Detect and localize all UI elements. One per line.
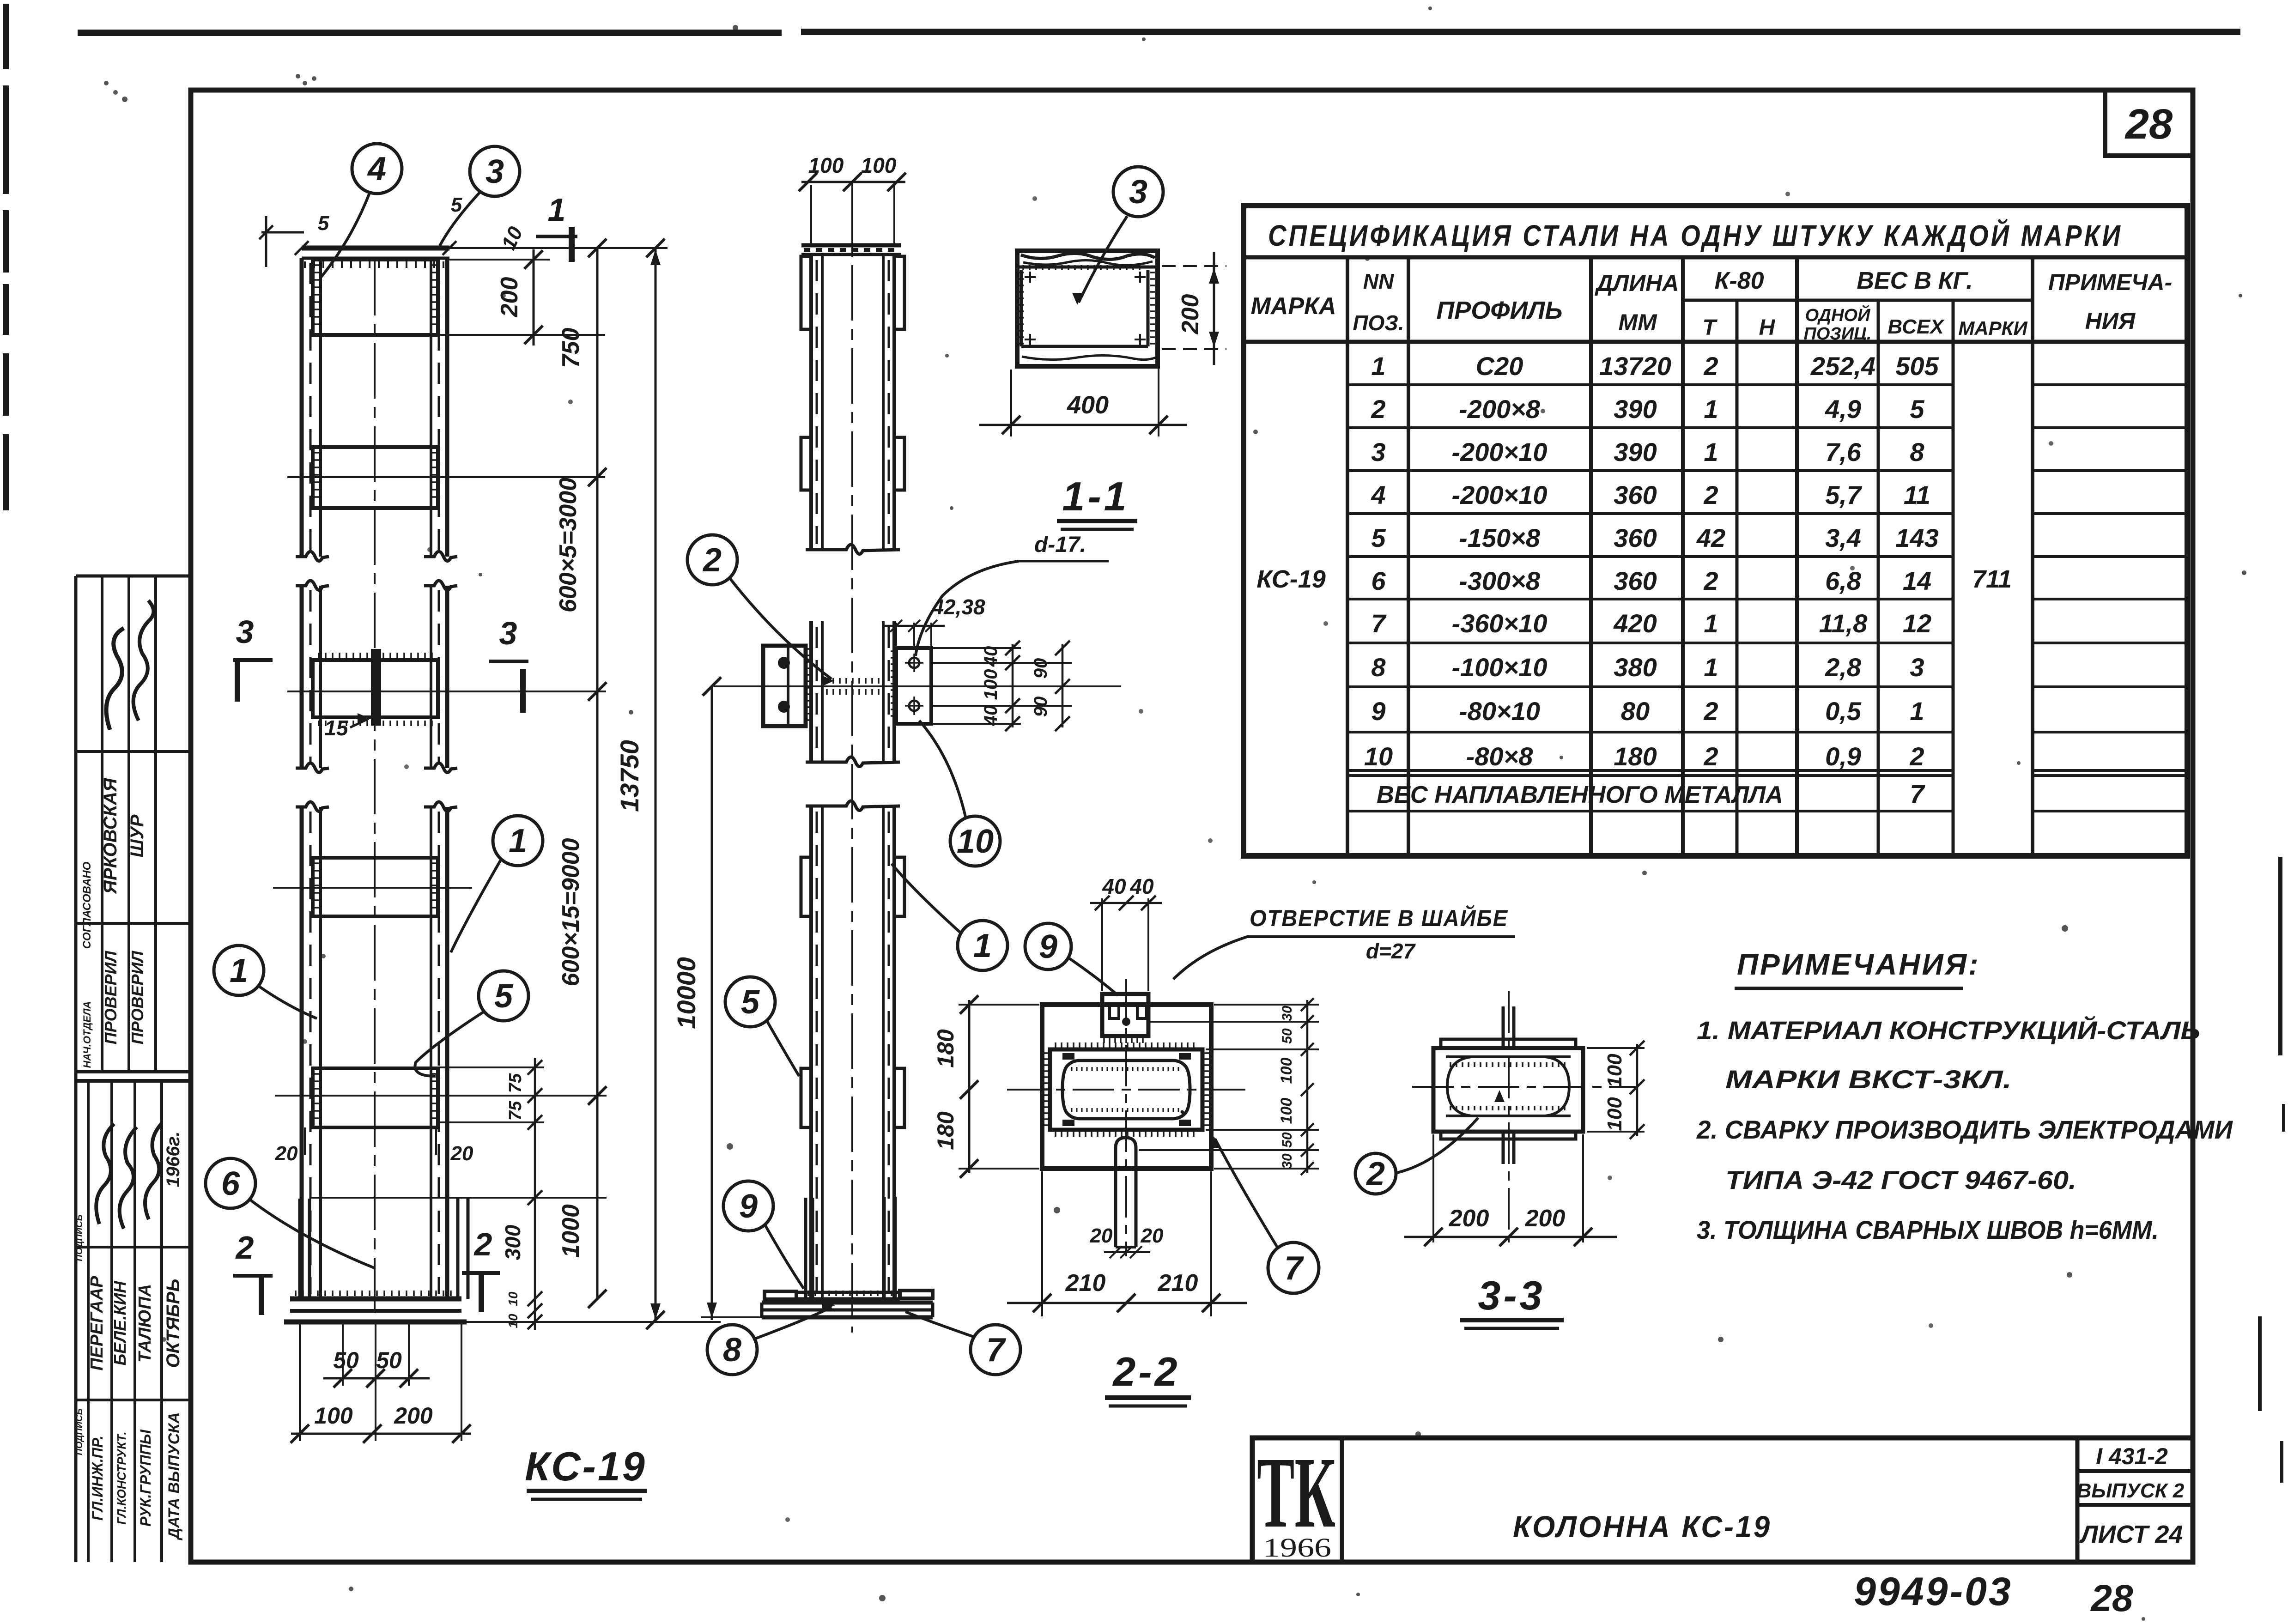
svg-text:С20: С20 (1476, 351, 1523, 381)
svg-text:2: 2 (702, 542, 722, 579)
svg-text:ПРОВЕРИЛ: ПРОВЕРИЛ (128, 950, 147, 1044)
svg-text:7: 7 (1284, 1250, 1304, 1287)
svg-text:d-17.: d-17. (1034, 533, 1086, 557)
svg-text:8: 8 (1371, 653, 1386, 682)
svg-text:5: 5 (1371, 523, 1386, 552)
svg-text:2: 2 (1703, 566, 1718, 595)
svg-text:75: 75 (506, 1073, 525, 1093)
svg-text:2: 2 (235, 1230, 254, 1266)
svg-text:30: 30 (1280, 1006, 1295, 1021)
svg-text:90: 90 (1031, 658, 1051, 679)
svg-text:180: 180 (933, 1029, 959, 1068)
svg-text:СОГЛАСОВАНО: СОГЛАСОВАНО (81, 861, 93, 949)
svg-text:20: 20 (1141, 1224, 1164, 1247)
svg-text:КС-19: КС-19 (525, 1443, 647, 1489)
svg-text:100: 100 (1278, 1098, 1295, 1124)
svg-text:ПОДПИСЬ: ПОДПИСЬ (74, 1408, 85, 1455)
svg-text:РУК.ГРУППЫ: РУК.ГРУППЫ (137, 1429, 154, 1527)
svg-text:6,8: 6,8 (1825, 566, 1862, 595)
svg-text:505: 505 (1895, 351, 1939, 381)
svg-text:50: 50 (376, 1347, 402, 1373)
svg-text:ЛИСТ 24: ЛИСТ 24 (2079, 1521, 2183, 1548)
svg-text:5: 5 (741, 984, 760, 1021)
svg-text:2,8: 2,8 (1825, 653, 1862, 682)
svg-text:ММ: ММ (1618, 309, 1657, 335)
svg-text:42: 42 (1696, 523, 1725, 552)
svg-text:143: 143 (1895, 523, 1938, 552)
svg-text:15: 15 (324, 716, 349, 740)
svg-text:40: 40 (981, 646, 1001, 667)
svg-text:10: 10 (1364, 742, 1393, 771)
svg-text:5,7: 5,7 (1825, 480, 1863, 509)
svg-text:300: 300 (501, 1224, 525, 1260)
svg-text:-200×10: -200×10 (1451, 480, 1547, 509)
svg-text:-80×10: -80×10 (1459, 697, 1540, 726)
svg-text:1-1: 1-1 (1062, 473, 1129, 519)
svg-text:ГЛ.КОНСТРУКТ.: ГЛ.КОНСТРУКТ. (115, 1431, 128, 1524)
svg-text:-200×10: -200×10 (1451, 437, 1547, 467)
svg-text:1: 1 (1704, 609, 1718, 638)
svg-text:d=27: d=27 (1366, 939, 1416, 963)
svg-text:100: 100 (1603, 1097, 1626, 1131)
svg-text:11,8: 11,8 (1819, 609, 1868, 638)
svg-text:11: 11 (1904, 480, 1930, 509)
svg-text:2: 2 (1703, 351, 1718, 381)
svg-text:20: 20 (275, 1142, 298, 1165)
svg-text:30: 30 (1280, 1153, 1295, 1169)
svg-text:252,4: 252,4 (1810, 351, 1875, 381)
svg-text:10000: 10000 (672, 957, 701, 1029)
svg-text:ТК: ТК (1257, 1436, 1335, 1549)
svg-text:200: 200 (496, 277, 523, 318)
svg-text:2: 2 (1365, 1156, 1385, 1193)
svg-text:ГЛ.ИНЖ.ПР.: ГЛ.ИНЖ.ПР. (89, 1436, 106, 1521)
svg-text:10: 10 (506, 1291, 520, 1306)
svg-text:КС-19: КС-19 (1256, 565, 1326, 593)
svg-text:750: 750 (558, 328, 584, 368)
svg-text:5: 5 (318, 212, 329, 235)
svg-text:360: 360 (1614, 566, 1657, 595)
svg-text:-80×8: -80×8 (1466, 742, 1534, 771)
svg-text:ПРИМЕЧАНИЯ:: ПРИМЕЧАНИЯ: (1737, 948, 1980, 981)
svg-text:40: 40 (981, 705, 1001, 727)
svg-text:НАЧ.ОТДЕЛА: НАЧ.ОТДЕЛА (81, 1001, 93, 1068)
svg-text:5: 5 (494, 978, 513, 1015)
svg-text:400: 400 (1067, 391, 1109, 419)
svg-text:0,9: 0,9 (1825, 742, 1861, 771)
svg-text:0,5: 0,5 (1825, 697, 1862, 726)
svg-text:80: 80 (1621, 697, 1650, 726)
svg-text:ПЕРЕГААР: ПЕРЕГААР (87, 1276, 107, 1371)
svg-text:40: 40 (1102, 874, 1126, 898)
svg-text:4: 4 (367, 151, 386, 188)
svg-text:СПЕЦИФИКАЦИЯ СТАЛИ НА ОДНУ: СПЕЦИФИКАЦИЯ СТАЛИ НА ОДНУ ШТУКУ КАЖДОЙ … (1268, 218, 2123, 252)
svg-text:ДЛИНА: ДЛИНА (1595, 270, 1679, 296)
svg-text:1: 1 (1910, 697, 1924, 726)
svg-text:ПРОФИЛЬ: ПРОФИЛЬ (1436, 297, 1562, 324)
svg-text:20: 20 (450, 1142, 473, 1165)
svg-text:200: 200 (1449, 1205, 1489, 1232)
svg-text:20: 20 (1090, 1224, 1113, 1247)
svg-text:50: 50 (333, 1347, 359, 1373)
svg-text:7: 7 (986, 1332, 1006, 1369)
svg-text:МАРКИ: МАРКИ (1958, 317, 2027, 339)
svg-text:6: 6 (221, 1165, 240, 1202)
svg-text:1966г.: 1966г. (163, 1132, 183, 1188)
svg-text:380: 380 (1614, 653, 1657, 682)
svg-text:2: 2 (1703, 742, 1718, 771)
svg-text:ОДНОЙ: ОДНОЙ (1805, 304, 1870, 325)
svg-text:210: 210 (1158, 1270, 1198, 1297)
svg-text:ПОЗИЦ.: ПОЗИЦ. (1804, 324, 1872, 344)
svg-text:40: 40 (1129, 874, 1154, 898)
svg-text:711: 711 (1972, 565, 2012, 593)
svg-text:100: 100 (981, 669, 1001, 700)
svg-text:ПОДПИСЬ: ПОДПИСЬ (74, 1214, 85, 1261)
svg-text:600×15=9000: 600×15=9000 (558, 838, 584, 986)
svg-text:2: 2 (1703, 697, 1718, 726)
svg-text:-300×8: -300×8 (1459, 566, 1541, 595)
svg-text:100: 100 (1603, 1054, 1626, 1088)
svg-text:ОКТЯБРЬ: ОКТЯБРЬ (163, 1279, 183, 1368)
svg-text:1: 1 (230, 952, 248, 989)
svg-text:2-2: 2-2 (1112, 1349, 1180, 1394)
svg-text:3: 3 (1371, 437, 1385, 467)
svg-text:180: 180 (1614, 742, 1657, 771)
svg-text:1000: 1000 (558, 1204, 584, 1258)
svg-text:6: 6 (1371, 566, 1386, 595)
svg-text:3. ТОЛЩИНА СВАРНЫХ ШВОВ h=6ММ.: 3. ТОЛЩИНА СВАРНЫХ ШВОВ h=6ММ. (1697, 1215, 2159, 1244)
svg-text:13720: 13720 (1599, 351, 1671, 381)
svg-text:390: 390 (1614, 437, 1657, 467)
svg-text:МАРКИ ВКСТ-3КЛ.: МАРКИ ВКСТ-3КЛ. (1725, 1065, 2012, 1094)
svg-text:Т: Т (1702, 315, 1717, 340)
svg-text:360: 360 (1614, 523, 1657, 552)
svg-text:ВЕС НАПЛАВЛЕННОГО МЕТАЛЛА: ВЕС НАПЛАВЛЕННОГО МЕТАЛЛА (1377, 782, 1783, 808)
svg-text:1. МАТЕРИАЛ КОНСТРУКЦИЙ-СТАЛЬ: 1. МАТЕРИАЛ КОНСТРУКЦИЙ-СТАЛЬ (1697, 1016, 2200, 1045)
svg-text:100: 100 (861, 153, 897, 177)
svg-text:3: 3 (236, 614, 254, 650)
svg-text:ТИПА Э-42 ГОСТ 9467-60.: ТИПА Э-42 ГОСТ 9467-60. (1725, 1165, 2076, 1194)
svg-text:9: 9 (1371, 697, 1385, 726)
svg-text:1: 1 (1704, 437, 1718, 467)
svg-text:14: 14 (1903, 566, 1931, 595)
svg-text:К-80: К-80 (1714, 267, 1764, 294)
svg-text:9949-03: 9949-03 (1854, 1569, 2013, 1614)
svg-text:1: 1 (973, 927, 992, 964)
svg-text:NN: NN (1363, 269, 1394, 293)
svg-text:МАРКА: МАРКА (1250, 293, 1336, 320)
svg-text:5: 5 (1910, 394, 1924, 424)
svg-text:12: 12 (1903, 609, 1931, 638)
svg-text:13750: 13750 (615, 740, 644, 812)
svg-text:ШУР: ШУР (127, 814, 147, 857)
svg-text:7,6: 7,6 (1825, 437, 1862, 467)
svg-text:3: 3 (1910, 653, 1924, 682)
svg-text:200: 200 (1525, 1205, 1566, 1232)
svg-text:ПОЗ.: ПОЗ. (1353, 311, 1404, 335)
svg-text:ПРОВЕРИЛ: ПРОВЕРИЛ (101, 950, 120, 1044)
svg-text:3: 3 (486, 153, 504, 190)
svg-text:10: 10 (957, 823, 994, 860)
svg-text:210: 210 (1065, 1270, 1106, 1297)
svg-text:I 431-2: I 431-2 (2096, 1443, 2168, 1469)
svg-text:ДАТА ВЫПУСКА: ДАТА ВЫПУСКА (165, 1412, 183, 1540)
svg-text:1: 1 (1704, 653, 1718, 682)
svg-text:420: 420 (1613, 609, 1657, 638)
svg-text:75: 75 (506, 1101, 525, 1121)
svg-text:600×5=3000: 600×5=3000 (555, 478, 582, 612)
svg-text:-100×10: -100×10 (1451, 653, 1547, 682)
svg-text:50: 50 (1280, 1028, 1295, 1044)
svg-text:НИЯ: НИЯ (2085, 308, 2136, 334)
svg-text:90: 90 (1031, 697, 1051, 717)
svg-text:390: 390 (1614, 394, 1657, 424)
svg-text:ПРИМЕЧА-: ПРИМЕЧА- (2048, 269, 2172, 295)
svg-text:-200×8: -200×8 (1459, 394, 1541, 424)
svg-text:4: 4 (1371, 480, 1385, 509)
svg-text:100: 100 (1278, 1058, 1295, 1084)
svg-text:1966: 1966 (1263, 1533, 1331, 1563)
svg-text:28: 28 (2090, 1577, 2133, 1619)
svg-text:100: 100 (808, 153, 844, 177)
svg-text:10: 10 (506, 1314, 520, 1328)
svg-text:1: 1 (509, 823, 527, 860)
svg-text:2: 2 (1371, 394, 1385, 424)
svg-text:ВЫПУСК 2: ВЫПУСК 2 (2077, 1479, 2185, 1502)
svg-text:3: 3 (499, 615, 517, 651)
svg-text:360: 360 (1614, 480, 1657, 509)
svg-text:3-3: 3-3 (1478, 1273, 1545, 1318)
svg-text:БЕЛЕ.КИН: БЕЛЕ.КИН (110, 1281, 129, 1366)
svg-text:8: 8 (723, 1332, 741, 1369)
svg-text:9: 9 (1039, 928, 1057, 965)
svg-text:100: 100 (314, 1403, 353, 1429)
svg-text:2: 2 (1909, 742, 1924, 771)
svg-text:ОТВЕРСТИЕ В ШАЙБЕ: ОТВЕРСТИЕ В ШАЙБЕ (1250, 905, 1508, 931)
svg-text:-360×10: -360×10 (1451, 609, 1547, 638)
svg-text:3,4: 3,4 (1825, 523, 1861, 552)
svg-text:2: 2 (473, 1226, 492, 1262)
svg-text:200: 200 (394, 1403, 433, 1429)
svg-text:ВСЕХ: ВСЕХ (1887, 315, 1945, 338)
svg-text:2. СВАРКУ ПРОИЗВОДИТЬ ЭЛЕКТРОД: 2. СВАРКУ ПРОИЗВОДИТЬ ЭЛЕКТРОДАМИ (1696, 1115, 2233, 1144)
svg-text:КОЛОННА КС-19: КОЛОННА КС-19 (1513, 1509, 1772, 1544)
svg-text:180: 180 (933, 1111, 959, 1150)
svg-text:ТАЛЮПА: ТАЛЮПА (135, 1284, 155, 1363)
svg-text:9: 9 (739, 1188, 758, 1225)
svg-text:7: 7 (1910, 779, 1925, 808)
svg-text:8: 8 (1910, 437, 1924, 467)
svg-text:ЯРКОВСКАЯ: ЯРКОВСКАЯ (100, 778, 121, 894)
svg-text:28: 28 (2124, 101, 2173, 148)
svg-text:ВЕС В КГ.: ВЕС В КГ. (1857, 267, 1972, 294)
svg-text:-150×8: -150×8 (1459, 523, 1541, 552)
svg-text:200: 200 (1177, 294, 1204, 335)
svg-text:7: 7 (1371, 609, 1387, 638)
svg-text:2: 2 (1703, 480, 1718, 509)
svg-text:3: 3 (1129, 174, 1147, 211)
svg-text:1: 1 (1371, 351, 1385, 381)
svg-text:1: 1 (548, 192, 566, 228)
svg-text:4,9: 4,9 (1825, 394, 1861, 424)
svg-text:Н: Н (1759, 315, 1776, 340)
svg-text:50: 50 (1280, 1132, 1295, 1148)
svg-text:1: 1 (1704, 394, 1718, 424)
